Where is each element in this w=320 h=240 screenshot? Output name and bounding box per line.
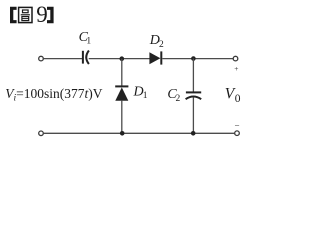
diode D1 (115, 86, 128, 100)
svg-text:−: − (235, 121, 240, 131)
capacitor C1 (83, 51, 89, 65)
svg-text:2: 2 (159, 40, 164, 50)
junction dot bottom D1 (120, 131, 125, 136)
svg-text:1: 1 (143, 91, 148, 101)
wire bottom (44, 132, 235, 134)
terminal top-right (233, 56, 238, 61)
wire C2 vertical upper (192, 59, 194, 92)
terminal bottom-left (39, 131, 44, 136)
svg-text:9: 9 (36, 2, 48, 27)
figure caption character 圖 (19, 7, 32, 22)
svg-text:1: 1 (86, 36, 91, 46)
svg-text:+: + (234, 64, 238, 73)
node A junction dot (120, 56, 125, 61)
wire D1 vertical upper (121, 59, 123, 86)
wire top: D2 to right terminal (162, 58, 233, 60)
figure caption bracket right 】 (47, 7, 54, 23)
terminal bottom-right (235, 131, 240, 136)
figure caption bracket left 【 (10, 7, 17, 23)
svg-text:2: 2 (176, 94, 181, 104)
diode D2 (149, 51, 161, 64)
junction dot bottom C2 (191, 131, 196, 136)
wire top: terminal to C1 (44, 58, 82, 60)
svg-text:0: 0 (235, 93, 241, 105)
wire top: C1 to D2 (89, 58, 150, 60)
terminal top-left (39, 56, 44, 61)
wire D1 vertical lower (121, 101, 123, 134)
node B junction dot (191, 56, 196, 61)
capacitor C2 (186, 92, 202, 99)
svg-text:Vi=100sin(377t)V: Vi=100sin(377t)V (5, 86, 103, 104)
wire C2 vertical lower (192, 97, 194, 133)
